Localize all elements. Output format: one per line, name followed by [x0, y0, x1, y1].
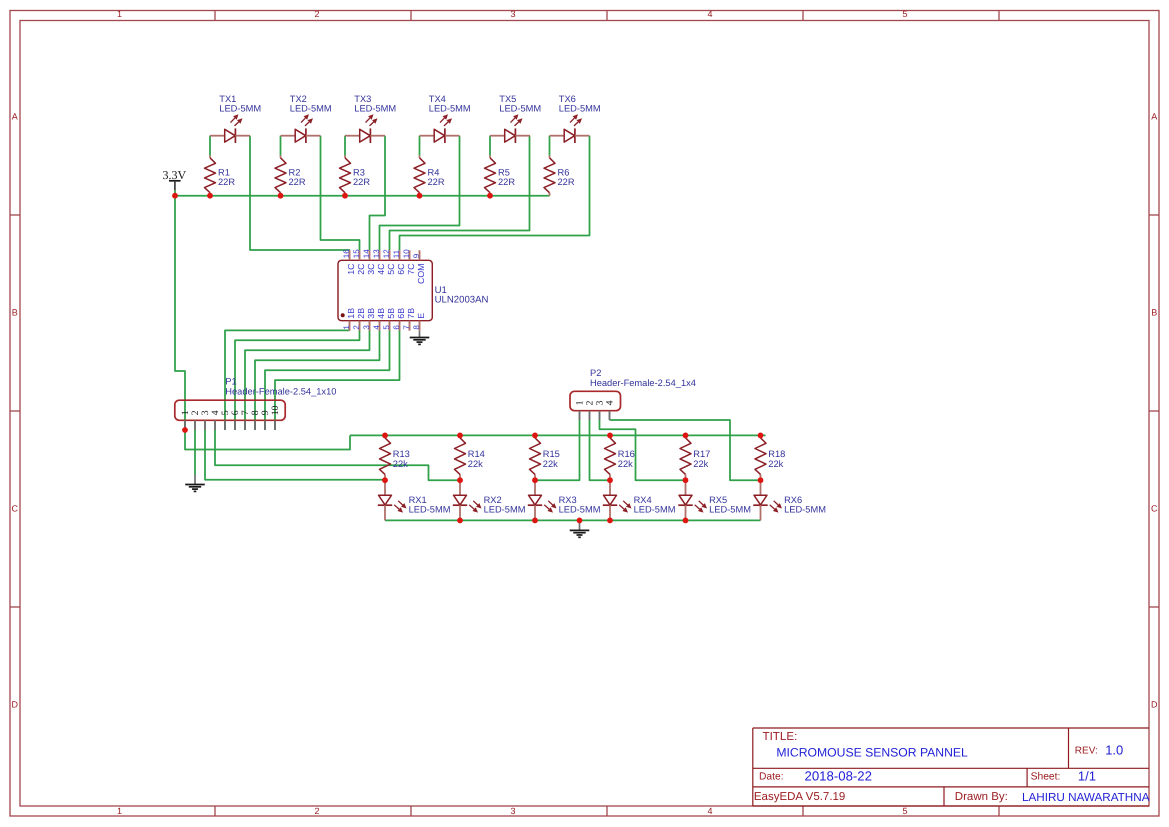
- svg-text:R15: R15: [543, 449, 560, 459]
- svg-text:22R: 22R: [428, 177, 445, 187]
- svg-text:2B: 2B: [356, 308, 366, 319]
- svg-text:3B: 3B: [366, 308, 376, 319]
- svg-text:2: 2: [314, 806, 319, 816]
- svg-text:22R: 22R: [353, 177, 370, 187]
- svg-text:D: D: [12, 699, 19, 709]
- svg-text:2: 2: [352, 325, 361, 330]
- svg-text:4: 4: [707, 806, 712, 816]
- svg-text:R2: R2: [289, 168, 301, 178]
- svg-text:TX2: TX2: [290, 94, 307, 104]
- svg-text:6: 6: [392, 325, 401, 330]
- svg-text:22R: 22R: [558, 177, 575, 187]
- svg-text:14: 14: [362, 249, 371, 258]
- svg-text:R14: R14: [468, 449, 485, 459]
- svg-text:RX1: RX1: [409, 495, 427, 505]
- svg-text:R6: R6: [558, 168, 570, 178]
- svg-text:3: 3: [510, 806, 515, 816]
- svg-text:5B: 5B: [386, 308, 396, 319]
- svg-text:22R: 22R: [218, 177, 235, 187]
- svg-text:5C: 5C: [386, 263, 396, 275]
- svg-text:4B: 4B: [376, 308, 386, 319]
- svg-text:TX1: TX1: [219, 94, 236, 104]
- svg-text:LED-5MM: LED-5MM: [484, 505, 526, 515]
- svg-text:3C: 3C: [366, 263, 376, 275]
- svg-text:4: 4: [707, 9, 712, 19]
- svg-text:R4: R4: [428, 168, 440, 178]
- svg-text:R17: R17: [693, 449, 710, 459]
- svg-text:P2: P2: [590, 368, 601, 378]
- svg-text:LED-5MM: LED-5MM: [634, 505, 676, 515]
- svg-text:22k: 22k: [693, 459, 708, 469]
- svg-text:3.3V: 3.3V: [163, 168, 187, 182]
- svg-text:7: 7: [402, 325, 411, 330]
- svg-text:LED-5MM: LED-5MM: [499, 104, 541, 114]
- svg-text:8: 8: [412, 325, 421, 330]
- svg-text:ULN2003AN: ULN2003AN: [435, 295, 489, 306]
- svg-text:22k: 22k: [393, 459, 408, 469]
- svg-text:TITLE:: TITLE:: [763, 730, 798, 743]
- svg-text:R1: R1: [218, 168, 230, 178]
- svg-text:B: B: [12, 307, 18, 317]
- svg-text:TX6: TX6: [559, 94, 576, 104]
- svg-text:15: 15: [352, 249, 361, 258]
- svg-text:Header-Female-2.54_1x4: Header-Female-2.54_1x4: [590, 378, 696, 388]
- svg-text:22R: 22R: [498, 177, 515, 187]
- svg-text:1: 1: [342, 325, 351, 330]
- svg-text:LED-5MM: LED-5MM: [429, 104, 471, 114]
- svg-text:LED-5MM: LED-5MM: [354, 104, 396, 114]
- svg-text:Sheet:: Sheet:: [1031, 771, 1061, 782]
- svg-text:B: B: [1151, 307, 1157, 317]
- svg-text:R3: R3: [353, 168, 365, 178]
- svg-text:3: 3: [362, 325, 371, 330]
- svg-text:LED-5MM: LED-5MM: [290, 104, 332, 114]
- svg-text:3: 3: [510, 9, 515, 19]
- svg-text:5: 5: [382, 325, 391, 330]
- svg-text:5: 5: [902, 806, 907, 816]
- svg-text:R5: R5: [498, 168, 510, 178]
- svg-text:7B: 7B: [406, 308, 416, 319]
- svg-text:1: 1: [117, 9, 122, 19]
- svg-text:6B: 6B: [396, 308, 406, 319]
- svg-text:4: 4: [372, 325, 381, 330]
- svg-text:11: 11: [392, 249, 401, 258]
- svg-text:Date:: Date:: [759, 771, 784, 782]
- svg-text:22R: 22R: [289, 177, 306, 187]
- svg-text:TX5: TX5: [499, 94, 516, 104]
- svg-text:10: 10: [270, 405, 281, 415]
- svg-text:RX5: RX5: [709, 495, 727, 505]
- svg-text:A: A: [12, 111, 18, 121]
- svg-text:TX3: TX3: [354, 94, 371, 104]
- svg-text:RX3: RX3: [559, 495, 577, 505]
- svg-text:LED-5MM: LED-5MM: [219, 104, 261, 114]
- svg-text:10: 10: [402, 249, 411, 258]
- svg-text:RX4: RX4: [634, 495, 652, 505]
- svg-text:R16: R16: [618, 449, 635, 459]
- svg-text:16: 16: [342, 249, 351, 258]
- svg-text:22k: 22k: [543, 459, 558, 469]
- svg-text:1.0: 1.0: [1105, 742, 1123, 757]
- svg-text:12: 12: [382, 249, 391, 258]
- svg-text:2018-08-22: 2018-08-22: [805, 769, 872, 784]
- svg-text:A: A: [1151, 111, 1157, 121]
- svg-text:9: 9: [412, 253, 421, 258]
- svg-text:13: 13: [372, 249, 381, 258]
- svg-text:2C: 2C: [356, 263, 366, 275]
- svg-text:LED-5MM: LED-5MM: [409, 505, 451, 515]
- svg-text:RX6: RX6: [784, 495, 802, 505]
- svg-text:7C: 7C: [406, 263, 416, 275]
- svg-text:22k: 22k: [468, 459, 483, 469]
- svg-text:1B: 1B: [346, 308, 356, 319]
- svg-text:REV:: REV:: [1075, 746, 1098, 757]
- svg-text:LED-5MM: LED-5MM: [709, 505, 751, 515]
- svg-text:P1: P1: [225, 377, 236, 387]
- svg-text:1/1: 1/1: [1078, 769, 1096, 784]
- svg-text:E: E: [416, 313, 426, 319]
- svg-text:6C: 6C: [396, 263, 406, 275]
- svg-text:R13: R13: [393, 449, 410, 459]
- svg-text:LAHIRU NAWARATHNA: LAHIRU NAWARATHNA: [1022, 791, 1150, 804]
- svg-text:22k: 22k: [768, 459, 783, 469]
- svg-text:COM: COM: [416, 264, 426, 285]
- svg-text:LED-5MM: LED-5MM: [559, 505, 601, 515]
- svg-text:Drawn By:: Drawn By:: [955, 791, 1008, 803]
- svg-text:5: 5: [902, 9, 907, 19]
- svg-text:1: 1: [117, 806, 122, 816]
- svg-text:Header-Female-2.54_1x10: Header-Female-2.54_1x10: [225, 386, 336, 396]
- svg-text:C: C: [1151, 503, 1158, 513]
- svg-text:R18: R18: [768, 449, 785, 459]
- svg-text:TX4: TX4: [429, 94, 446, 104]
- svg-text:4: 4: [605, 400, 616, 405]
- svg-text:22k: 22k: [618, 459, 633, 469]
- svg-text:LED-5MM: LED-5MM: [559, 104, 601, 114]
- svg-text:LED-5MM: LED-5MM: [784, 505, 826, 515]
- svg-text:4C: 4C: [376, 263, 386, 275]
- svg-text:1C: 1C: [346, 263, 356, 275]
- svg-text:EasyEDA V5.7.19: EasyEDA V5.7.19: [754, 791, 845, 803]
- svg-text:C: C: [12, 503, 19, 513]
- svg-text:D: D: [1151, 699, 1158, 709]
- svg-text:2: 2: [314, 9, 319, 19]
- svg-text:RX2: RX2: [484, 495, 502, 505]
- svg-text:MICROMOUSE SENSOR PANNEL: MICROMOUSE SENSOR PANNEL: [776, 746, 968, 760]
